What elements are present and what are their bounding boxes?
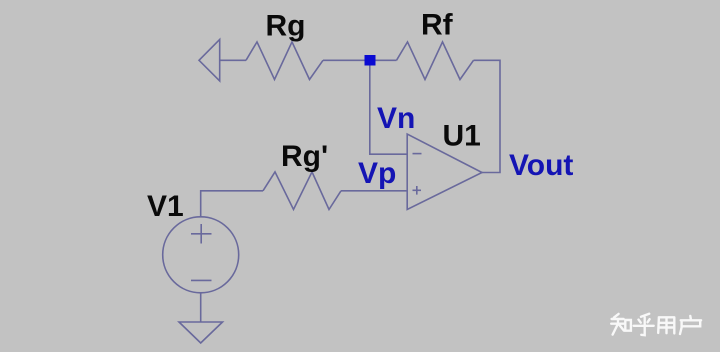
svg-text:Rg: Rg [266, 9, 306, 42]
wire [474, 60, 501, 172]
watermark 知乎用户 [611, 314, 701, 336]
watermark char 知 [611, 314, 631, 335]
wire [220, 59, 246, 61]
svg-text:Vn: Vn [377, 102, 415, 135]
wire node to inverting input [370, 65, 407, 154]
watermark char 户 [680, 316, 701, 334]
svg-text:Rg': Rg' [281, 140, 328, 173]
svg-text:U1: U1 [443, 119, 481, 152]
svg-text:Vout: Vout [509, 149, 573, 182]
wire [376, 59, 397, 61]
svg-text:Rf: Rf [421, 9, 454, 42]
resistor Rg' [263, 172, 341, 210]
resistor Rg [246, 42, 323, 80]
wire V1 top [201, 191, 263, 217]
svg-text:V1: V1 [147, 190, 184, 223]
svg-text:Vp: Vp [358, 157, 396, 190]
wire Vp to non-inverting input [341, 190, 407, 192]
ground [179, 322, 223, 343]
wire [323, 59, 365, 61]
op-amp U1 [407, 134, 482, 210]
voltage source V1 [163, 217, 239, 293]
node junction square [365, 55, 376, 66]
input port arrow [199, 39, 220, 81]
resistor Rf [397, 42, 474, 80]
watermark char 用 [658, 317, 674, 333]
watermark char 乎 [634, 314, 654, 336]
wire V1 bottom [200, 293, 202, 322]
